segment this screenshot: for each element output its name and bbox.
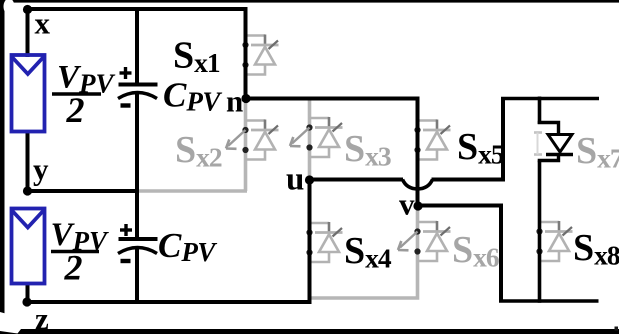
wire u hop over Sx5 [403,180,433,189]
svg-text:n: n [226,84,243,119]
node n [241,94,250,103]
capacitor C_PV bottom plates [119,237,158,241]
wire PV1-to-y [26,130,30,191]
svg-text:z: z [35,301,49,334]
IGBT switch S_x4 symbol [310,222,330,225]
wire Sx1 branch (top rail to n) [244,7,248,99]
wire y-to-Sx2 gray segment [137,189,247,193]
wire Sx7 jog lower [538,153,559,161]
PV source 2 (bottom) [12,209,45,284]
wire left rail x-to-PV1 [26,7,30,57]
IGBT switch S_x3 symbol [310,117,330,120]
svg-text:u: u [286,162,304,198]
capacitor C_PV bottom polarity + [120,228,132,231]
wire Sx5 branch n-to-v [416,97,420,206]
wire u horizontal left [310,178,404,182]
wire PV2-to-z [26,284,30,302]
IGBT switch S_x6 symbol [418,221,438,224]
node x [23,5,32,14]
svg-text:v: v [399,187,415,222]
wire right bracket bottom horizontal [499,299,599,303]
IGBT switch S_x5 symbol [418,119,438,122]
wire top rail x-to-Sx1 [28,7,246,11]
wire u horizontal right [432,178,504,182]
wire Sx7 rail top [538,97,542,125]
white artifact bottom-left (cursor) [0,312,21,334]
capacitor C_PV top polarity + [120,71,132,74]
svg-text:x: x [35,6,51,41]
node v [413,201,422,210]
wire n horizontal to Sx5 [244,97,418,101]
node z [22,297,31,306]
diode D7 of S_x7 [548,135,572,153]
IGBT switch S_x3 arrow [292,128,310,144]
wire Sx6 branch v-to-rail (gray) [310,208,418,298]
white artifact top-left [4,0,15,15]
svg-text:2: 2 [64,248,83,288]
switch S_x7 gray remnant [534,131,542,134]
capacitor C_PV top polarity - [121,103,131,107]
wire Sx2 branch n-to-y (gray) [244,100,248,191]
IGBT switch S_x2 symbol [246,119,266,122]
wire cap column top [135,9,139,83]
wire Sx7 jog upper [538,123,559,137]
wire cap column bottom [135,249,139,302]
capacitor C_PV top plates [119,83,158,87]
wire right bracket left-bottom vertical [499,204,503,302]
capacitor C_PV bottom polarity - [121,259,131,263]
border frame [0,0,5,334]
wire Sx3 branch n-to-u (gray) [308,100,312,178]
node y [23,186,32,195]
PV source 1 (top) [12,55,45,132]
wire cap column middle [135,94,139,238]
node u [305,175,314,184]
IGBT switch S_x6 arrow [400,232,418,248]
wire y horizontal [28,189,138,193]
IGBT switch S_x2 arrow [228,130,246,146]
IGBT switch S_x1 symbol [246,34,266,37]
small mark bottom-right [615,327,619,331]
IGBT switch S_x8 symbol [540,221,560,224]
svg-text:y: y [33,152,49,187]
svg-text:2: 2 [66,90,85,130]
wire v horizontal [416,204,501,208]
wire Sx4 branch u-to-z [308,180,312,303]
wire Sx7/Sx8 rail bottom [538,161,542,303]
wire right bracket left-top vertical [501,99,505,182]
wire right bracket top horizontal [501,97,599,101]
wire z rail [28,300,312,304]
